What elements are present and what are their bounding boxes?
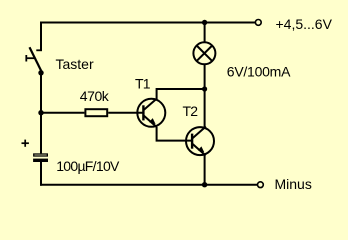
svg-text:T2: T2 — [183, 103, 199, 119]
svg-text:Minus: Minus — [275, 176, 312, 192]
terminal Minus (open circle) — [258, 182, 264, 188]
wire: resistor branch horizontal left segment — [41, 112, 84, 114]
wire: T1 collector up and right to main rail — [157, 89, 205, 99]
junction dot on bottom rail — [202, 182, 207, 187]
wire: resistor to T1 base — [108, 112, 143, 114]
svg-text:Taster: Taster — [56, 56, 94, 72]
wire: top supply rail — [40, 22, 255, 24]
wire: T2 emitter to bottom rail — [204, 155, 206, 185]
wire: T1 emitter down and right to T2 base — [157, 127, 193, 141]
plus polarity mark of C1 — [22, 140, 29, 147]
capacitor C1 100µF/10V (electrolytic) — [33, 154, 48, 162]
junction dot at collector/lamp node — [202, 86, 207, 91]
junction dot on top rail — [202, 20, 207, 25]
junction dot below switch — [38, 70, 43, 75]
wire: capacitor to bottom rail — [40, 162, 42, 186]
wire: left vertical from top rail to switch — [40, 22, 42, 51]
wire: left vertical from switch to capacitor — [40, 73, 42, 154]
transistor T1 — [137, 98, 165, 127]
svg-text:T1: T1 — [135, 75, 151, 91]
terminal +4,5...6V (open circle) — [255, 20, 261, 26]
lamp LA1 (6V/100mA) — [193, 42, 215, 64]
wire: bottom rail — [40, 184, 257, 186]
svg-text:+4,5...6V: +4,5...6V — [276, 16, 333, 32]
junction node at resistor branch — [38, 110, 43, 115]
transistor T2 — [186, 127, 214, 156]
svg-text:6V/100mA: 6V/100mA — [227, 64, 291, 80]
svg-text:470k: 470k — [80, 88, 110, 104]
svg-text:100µF/10V: 100µF/10V — [56, 158, 120, 174]
resistor 470k — [85, 109, 107, 116]
switch S1 (Taster, push-button) — [26, 47, 42, 71]
wire: main rail down from top rail to lamp — [204, 22, 206, 43]
wire: lamp to collector node and T2 collector — [204, 65, 206, 128]
